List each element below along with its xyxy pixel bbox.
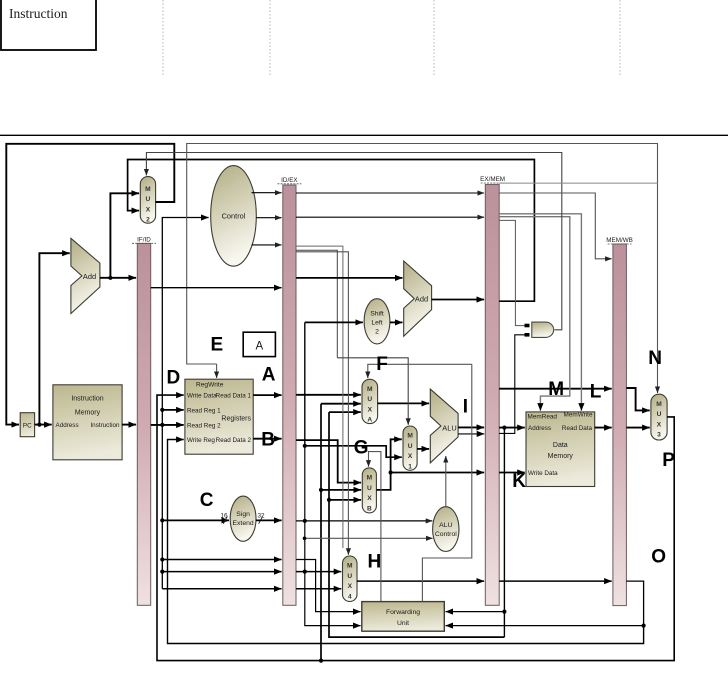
- junction instruction bus: [160, 423, 164, 427]
- svg-text:M: M: [548, 379, 564, 400]
- wire: forwarding select riser down to forwarding unit: [422, 364, 471, 601]
- horizontal page rule: [0, 134, 728, 136]
- wire: AND output (PCSrc) around top to MUX2 select: [146, 153, 561, 330]
- wire: ALU Control output to ALU: [445, 456, 447, 507]
- wire: MUX4 output (write reg num) into EX/MEM: [357, 580, 484, 582]
- svg-text:Left: Left: [371, 320, 382, 327]
- svg-text:3: 3: [657, 432, 661, 439]
- wire: MUX2 output to PC (next PC loop): [6, 144, 174, 425]
- svg-text:U: U: [146, 196, 151, 203]
- svg-text:MEM/WB: MEM/WB: [606, 237, 633, 244]
- wire: EX/MEM ALU result to Data Memory Address: [499, 427, 525, 429]
- svg-text:M: M: [145, 186, 151, 193]
- svg-text:Memory: Memory: [548, 453, 574, 460]
- wire: Sign Extend output into ID/EX: [256, 519, 282, 521]
- svg-text:O: O: [651, 547, 666, 568]
- svg-text:IF/ID: IF/ID: [137, 237, 151, 244]
- bus width slash 16: [223, 516, 227, 523]
- wire: ID/EX control dive 1 to MUX1 select loop: [296, 250, 337, 358]
- svg-text:Read Reg 2: Read Reg 2: [187, 422, 221, 429]
- ALU Control: [433, 507, 459, 552]
- svg-text:RegWrite: RegWrite: [196, 382, 224, 389]
- wire: Data Memory Read Data into MEM/WB: [595, 427, 612, 429]
- svg-text:Control: Control: [435, 531, 457, 538]
- svg-text:ID/EX: ID/EX: [281, 177, 298, 184]
- ALU: [430, 389, 458, 463]
- wire: ID/EX field to MUX4 input 1: [296, 571, 341, 573]
- svg-text:M: M: [407, 433, 413, 440]
- wire: M control ID/EX to EX/MEM: [296, 216, 484, 218]
- svg-text:Sign: Sign: [236, 511, 250, 518]
- svg-text:A: A: [367, 417, 372, 424]
- Data Memory: [526, 411, 595, 486]
- wire: branch Add output into EX/MEM: [432, 299, 485, 301]
- wire: F outer loop to MUX 1 select: [337, 358, 408, 425]
- wire: Read Reg 1 input: [162, 409, 183, 411]
- top instruction legend box: [1, 0, 96, 50]
- wire: ALU zero flag into EX/MEM: [458, 433, 484, 435]
- wire: EX/MEM forward to MUX A input 2: [321, 403, 361, 405]
- svg-text:X: X: [408, 453, 413, 460]
- Forwarding Unit: [362, 602, 445, 632]
- Shift Left 2: [364, 299, 390, 344]
- wire: instruction field into ID/EX (row 3): [162, 588, 281, 590]
- wire: zero flag riser to AND gate input 2: [499, 335, 528, 434]
- svg-text:Instruction: Instruction: [9, 6, 68, 21]
- svg-text:Write Data: Write Data: [528, 470, 558, 477]
- dotted column guides: [162, 0, 164, 76]
- wire: Read Data 2 into ID/EX (B): [253, 438, 281, 440]
- wire: ID/EX control down to MUX4 select: [296, 252, 348, 555]
- wire: immediate to Shift Left 2: [305, 321, 363, 323]
- svg-text:2: 2: [375, 329, 379, 336]
- pipeline register EX/MEM: [480, 176, 505, 605]
- svg-text:D: D: [167, 368, 181, 389]
- svg-text:U: U: [657, 411, 662, 418]
- wire: PC to Instruction Memory Address: [35, 424, 52, 426]
- mux MUX 3 (MemtoReg): [651, 394, 667, 440]
- wire: Rt riser to forwarding unit left input 2: [305, 572, 361, 626]
- svg-text:M: M: [347, 563, 353, 570]
- mux MUX B (forward B): [362, 468, 376, 513]
- svg-text:Extend: Extend: [233, 520, 254, 527]
- junction MUX B output (K tap): [389, 470, 393, 474]
- wire: MemRead control from EX/MEM: [499, 217, 570, 411]
- wire: Instruction Memory to IF/ID: [122, 424, 136, 426]
- svg-text:Memory: Memory: [75, 410, 101, 417]
- wire: instruction field into ID/EX (row 1): [162, 559, 281, 561]
- mux MUX 1 (ALUSrc): [403, 426, 417, 471]
- svg-text:Read Reg 1: Read Reg 1: [187, 407, 221, 414]
- wire: EX/MEM ALU result into MEM/WB: [499, 388, 612, 390]
- svg-text:A: A: [255, 341, 263, 353]
- wire: funct field to ALU Control input 2: [305, 537, 433, 539]
- wire: Control to ID/EX (M): [256, 217, 281, 219]
- svg-text:A: A: [262, 365, 276, 386]
- svg-text:X: X: [368, 406, 373, 413]
- wire: WB control ID/EX to EX/MEM: [296, 192, 484, 194]
- svg-text:MemRead: MemRead: [528, 413, 558, 420]
- mux MUX A (forward A): [362, 379, 378, 423]
- wire: instruction to Sign Extend: [162, 519, 229, 521]
- svg-text:Write Reg: Write Reg: [187, 437, 215, 444]
- svg-text:16: 16: [220, 512, 228, 519]
- wire: immediate riser top segment: [304, 322, 306, 445]
- wire: WB control EX/MEM to MEM/WB: [499, 193, 612, 259]
- svg-text:Read Data: Read Data: [562, 425, 593, 432]
- svg-text:Data: Data: [553, 442, 568, 449]
- wire: PC value up to Add: [39, 253, 69, 424]
- svg-text:X: X: [657, 421, 662, 428]
- wire: Control to ID/EX (WB): [252, 192, 282, 194]
- wire: writeback control loop to RegWrite and MUX3 select (N): [187, 144, 658, 394]
- wire: MUX 1 output to ALU input 2: [417, 448, 429, 450]
- boxed answer label A: [243, 332, 275, 356]
- wire: MEM/WB forward to MUX A input 3: [329, 411, 361, 413]
- wire: branch target from EX/MEM back to MUX2 input 2: [128, 160, 535, 302]
- wire: PC+4 IF/ID to ID/EX: [151, 287, 282, 289]
- wire: ALU result into EX/MEM: [458, 426, 484, 428]
- svg-text:U: U: [347, 573, 352, 580]
- svg-text:L: L: [590, 382, 602, 403]
- wire: MUX A output to ALU input 1: [378, 402, 430, 404]
- svg-text:EX/MEM: EX/MEM: [480, 176, 505, 183]
- svg-text:X: X: [146, 206, 151, 213]
- mux MUX 4 (RegDst): [343, 556, 358, 602]
- svg-text:B: B: [367, 505, 372, 512]
- svg-text:C: C: [200, 490, 214, 511]
- adder Add (branch target): [404, 261, 432, 336]
- svg-text:G: G: [354, 438, 369, 459]
- svg-text:M: M: [367, 475, 373, 482]
- wire: forward riser from ALU-result loop: [329, 412, 504, 637]
- wire: store data (K) into EX/MEM: [391, 472, 485, 474]
- svg-text:ALU: ALU: [439, 522, 452, 529]
- svg-text:Instruction: Instruction: [90, 422, 120, 429]
- wire: Add (PC+4) output into IF/ID: [100, 277, 136, 279]
- wire: MEM/WB forward to MUX B input 3: [329, 499, 361, 501]
- pipeline register IF/ID: [132, 237, 156, 606]
- wire: Rt riser segment: [304, 446, 306, 572]
- PC register: [20, 413, 34, 437]
- svg-text:Instruction: Instruction: [71, 396, 103, 403]
- svg-text:Address: Address: [56, 422, 79, 429]
- svg-text:H: H: [368, 551, 382, 572]
- wire: ALU result riser down to forwarding: [503, 428, 505, 637]
- svg-text:Read Data 1: Read Data 1: [216, 393, 252, 400]
- AND gate: [532, 322, 554, 337]
- wire: instruction field into ID/EX (row 2): [162, 571, 281, 573]
- wire: Control to ID/EX (EX): [252, 244, 282, 246]
- Control unit: [211, 166, 257, 267]
- svg-text:Write Data: Write Data: [187, 393, 217, 400]
- svg-text:U: U: [367, 485, 372, 492]
- wire: branch control from EX/MEM to AND gate input 1: [499, 220, 528, 325]
- wire: Rt field from ID/EX rightwards: [305, 446, 402, 457]
- svg-text:K: K: [512, 471, 526, 492]
- svg-text:Shift: Shift: [370, 311, 384, 318]
- svg-text:P: P: [662, 450, 675, 471]
- svg-text:X: X: [367, 495, 372, 502]
- wire: Shift Left 2 to branch Add: [390, 321, 403, 323]
- wire: ID/EX field to forwarding unit left input 1: [296, 560, 361, 612]
- svg-text:MemWrite: MemWrite: [564, 411, 593, 418]
- svg-text:X: X: [348, 583, 353, 590]
- wire: forward riser from writeback loop: [320, 404, 322, 661]
- wire: immediate from ID/EX to ALU Control input 1: [296, 520, 432, 522]
- wire: instruction riser to Control input: [162, 218, 208, 589]
- junction at PC output: [37, 423, 41, 427]
- svg-text:I: I: [463, 397, 468, 418]
- svg-text:Control: Control: [222, 212, 246, 221]
- pipeline register ID/EX: [277, 177, 301, 605]
- svg-text:N: N: [648, 348, 662, 369]
- wire: MEM/WB reg num to forwarding unit right input 2: [446, 581, 644, 626]
- wire: MEM/WB read data to MUX 3 input 2: [626, 427, 649, 429]
- svg-text:ALU: ALU: [442, 423, 456, 432]
- svg-text:1: 1: [408, 464, 412, 471]
- wire: MemWrite control from EX/MEM: [499, 214, 581, 411]
- wire: MEM/WB reg num back to Registers Write Reg: [168, 440, 644, 644]
- Instruction Memory: [53, 385, 122, 460]
- adder Add (PC+4): [71, 238, 100, 313]
- wire: ID/EX control dive 2: [296, 246, 343, 548]
- svg-text:U: U: [367, 396, 372, 403]
- svg-text:U: U: [408, 443, 413, 450]
- wire: instruction bus IF/ID to Registers Read Reg 2: [151, 424, 184, 426]
- wire: store data EX/MEM to Data Memory Write Data: [499, 472, 525, 474]
- wire: ID/EX B value to MUX B input 1: [296, 440, 361, 483]
- svg-text:M: M: [656, 401, 662, 408]
- svg-text:2: 2: [146, 217, 150, 224]
- svg-text:Add: Add: [415, 295, 428, 304]
- svg-text:Unit: Unit: [397, 620, 409, 627]
- wire: MUX 3 output writeback loop to Registers Write Data (P/O loop): [157, 395, 674, 660]
- wire: ID/EX A value to MUX A input 1: [296, 394, 361, 396]
- mux MUX2 (PC source): [140, 177, 155, 224]
- Sign Extend: [220, 496, 265, 541]
- svg-text:4: 4: [348, 594, 352, 601]
- svg-text:F: F: [376, 354, 388, 375]
- wire: PC+4 up to MUX2 input 1: [110, 193, 139, 277]
- svg-text:E: E: [211, 335, 224, 356]
- Registers file: [185, 379, 253, 454]
- svg-text:M: M: [367, 386, 373, 393]
- pipeline register MEM/WB: [606, 237, 633, 605]
- junction on PC+4 wire: [108, 276, 112, 280]
- svg-text:B: B: [261, 430, 275, 451]
- wire: forwarding output up to MUX B select: [369, 452, 381, 602]
- svg-text:Read Data 2: Read Data 2: [216, 437, 252, 444]
- svg-text:Forwarding: Forwarding: [386, 609, 420, 616]
- bus width slash 32: [259, 516, 263, 523]
- wire: control gray stub right of EX/MEM: [499, 182, 657, 184]
- wire: EX/MEM forward to MUX B input 2: [321, 489, 361, 491]
- svg-text:Registers: Registers: [221, 416, 251, 423]
- wire: MEM/WB ALU result to MUX 3 input 1: [626, 388, 649, 410]
- wire: MUX B output up to MUX 1 input 1: [376, 439, 401, 490]
- wire: F inner loop to MUX A select: [368, 364, 472, 378]
- svg-text:Add: Add: [83, 272, 96, 281]
- svg-text:PC: PC: [23, 422, 32, 429]
- wire: PC+4 from ID/EX to branch Add: [296, 277, 403, 279]
- wire: Read Data 1 into ID/EX (A): [253, 394, 281, 396]
- svg-text:Address: Address: [528, 425, 551, 432]
- wire: forwarding unit right input 1: [446, 611, 505, 613]
- wire: write reg num EX/MEM to MEM/WB: [499, 580, 612, 582]
- wire: ID/EX field to MUX4 input 2: [296, 588, 341, 590]
